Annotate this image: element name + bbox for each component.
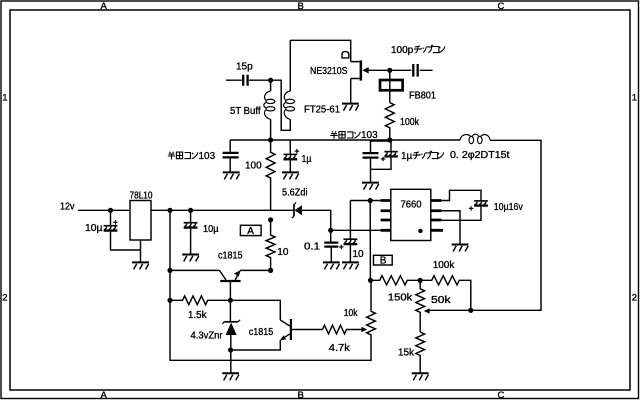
wire 12v rail (78, 209, 130, 211)
svg-text:c1815: c1815 (249, 327, 274, 338)
svg-text:1µ: 1µ (302, 154, 312, 165)
svg-text:15p: 15p (236, 62, 253, 73)
capacitor hand-solder 103 (半田コン103) right (330, 130, 390, 182)
ground at pin2 (452, 245, 469, 252)
wire drain feedback loop (290, 40, 350, 61)
resistor 15k (398, 332, 425, 373)
svg-text:5T Buff: 5T Buff (230, 106, 261, 117)
transformer T1 primary winding 5T Buff (230, 80, 275, 140)
svg-text:1.5k: 1.5k (188, 310, 207, 321)
wire pin4 net (331, 229, 381, 231)
wire (271, 80, 291, 130)
resistor 1.5k (170, 296, 230, 321)
svg-text:2: 2 (632, 292, 637, 303)
node junction left column base row (167, 298, 172, 303)
svg-text:1µ: 1µ (401, 151, 413, 162)
svg-text:C: C (498, 1, 505, 12)
node gate junction (387, 68, 392, 73)
capacitor 10u electrolytic output (184, 210, 219, 254)
node junction zener/emitter (228, 347, 233, 352)
capacitor 10u16v electrolytic (441, 201, 522, 220)
svg-text:B: B (298, 1, 304, 12)
svg-text:0. 2φ2DT15t: 0. 2φ2DT15t (450, 150, 510, 161)
node junction left column A (167, 268, 172, 273)
svg-text:0.1: 0.1 (304, 241, 320, 252)
svg-text:4.3vZnr: 4.3vZnr (191, 331, 224, 342)
svg-text:1: 1 (632, 92, 637, 103)
wire collector net (170, 269, 220, 271)
wire pin2 to ground (441, 211, 460, 244)
svg-text:B: B (298, 390, 304, 400)
svg-text:FB801: FB801 (409, 91, 436, 102)
svg-text:10: 10 (353, 249, 365, 260)
transistor Q1 c1815 (218, 251, 243, 301)
wire pin1 net (350, 201, 380, 281)
wire (170, 210, 371, 360)
node junction zener/0.1 (328, 228, 333, 233)
svg-text:10µ: 10µ (203, 224, 219, 235)
node junction rail/A-net (167, 208, 172, 213)
svg-text:10: 10 (277, 247, 289, 258)
capacitor hand-solder 103 (半田コン103) left (168, 140, 239, 172)
capacitor 15p (226, 62, 271, 86)
svg-text:5.6Zdi: 5.6Zdi (282, 187, 308, 198)
svg-text:4.7k: 4.7k (329, 343, 351, 354)
inductor 0.2phi 2DT 15t (450, 134, 510, 161)
ground under 10 (342, 262, 359, 269)
svg-text:C: C (498, 390, 505, 400)
wire riser right side (471, 140, 541, 310)
resistor 100k (gate bias) (385, 103, 419, 140)
ground under 103/1u chip caps (362, 183, 379, 190)
node junction B net (368, 278, 373, 283)
potentiometer 50k (416, 280, 471, 332)
capacitor 0.1 (304, 230, 338, 261)
capacitor 100p chip (100pチップコン) (390, 45, 445, 77)
capacitor 1u electrolytic (283, 140, 311, 172)
svg-text:100k: 100k (400, 117, 420, 128)
node junction at transformer primary top (268, 78, 273, 83)
capacitor 1u chip (1μチップコン) (371, 140, 444, 169)
diode zener 5.6Zdi (292, 203, 331, 231)
node junction Q1 base (228, 298, 233, 303)
svg-text:100: 100 (245, 161, 262, 172)
wire emitter net (240, 269, 271, 271)
node junction wiper (468, 308, 473, 313)
svg-text:7660: 7660 (401, 200, 422, 211)
ferrite bead FB801 (380, 70, 436, 102)
node B label box (374, 255, 393, 266)
node junction rail/10u (188, 208, 193, 213)
ground under 1u cap (282, 172, 299, 179)
resistor 100k (420, 260, 471, 310)
ground under 0.1 (323, 262, 340, 269)
potentiometer 10k (344, 280, 376, 337)
svg-text:A: A (101, 390, 108, 400)
svg-text:150k: 150k (388, 292, 414, 303)
svg-text:100k: 100k (433, 260, 456, 271)
wire base row to Q2 collector (230, 300, 280, 320)
resistor 100 (245, 140, 275, 210)
resistor 10 (266, 220, 289, 271)
capacitor 10 electrolytic (339, 201, 364, 262)
node junction at transformer bottom (268, 137, 273, 142)
ground under zener (222, 373, 239, 380)
capacitor 10u electrolytic input (85, 210, 141, 250)
svg-text:50k: 50k (431, 295, 452, 306)
transformer T1 secondary winding FT25-61 (284, 40, 341, 119)
svg-text:A: A (247, 226, 254, 237)
svg-text:10µ16v: 10µ16v (494, 202, 523, 213)
svg-text:1: 1 (2, 92, 7, 103)
svg-text:15k: 15k (398, 348, 415, 359)
node junction 150k/100k/50k (418, 278, 423, 283)
transistor Q2 c1815 (231, 319, 323, 350)
ground under 78L10 (132, 262, 149, 269)
svg-text:FT25-61: FT25-61 (304, 105, 340, 116)
svg-text:100p: 100p (391, 45, 414, 56)
svg-text:10µ: 10µ (85, 223, 103, 234)
ground under 10u output (182, 255, 199, 262)
svg-text:2: 2 (2, 292, 7, 303)
node junction below rail crossing (268, 217, 273, 222)
ground at FET source (342, 104, 359, 111)
ground under 15k (412, 373, 429, 380)
svg-text:12v: 12v (60, 202, 75, 213)
svg-text:B: B (380, 255, 387, 266)
node junction Q1 emitter (268, 268, 273, 273)
svg-text:A: A (101, 1, 108, 12)
svg-text:78L10: 78L10 (130, 190, 153, 201)
svg-text:10k: 10k (344, 308, 359, 319)
node junction 12v/10u (108, 208, 113, 213)
wire pin1 right loop (441, 190, 481, 200)
resistor 150k (371, 276, 421, 304)
transistor NE3210S (310, 52, 390, 103)
regulator 78L10 (130, 190, 294, 261)
node junction B net top (387, 137, 392, 142)
node A label box (240, 225, 261, 237)
resistor 4.7k (323, 325, 368, 354)
node junction IC pin1 net (368, 198, 373, 203)
svg-text:NE3210S: NE3210S (310, 66, 348, 77)
svg-text:103: 103 (199, 151, 216, 162)
diode zener 4.3vZnr (191, 300, 241, 372)
IC 7660 (381, 189, 443, 240)
svg-text:c1815: c1815 (218, 251, 243, 262)
ground under 103 cap (223, 172, 240, 179)
wire y140 rail (230, 139, 460, 141)
svg-text:103: 103 (361, 130, 378, 141)
